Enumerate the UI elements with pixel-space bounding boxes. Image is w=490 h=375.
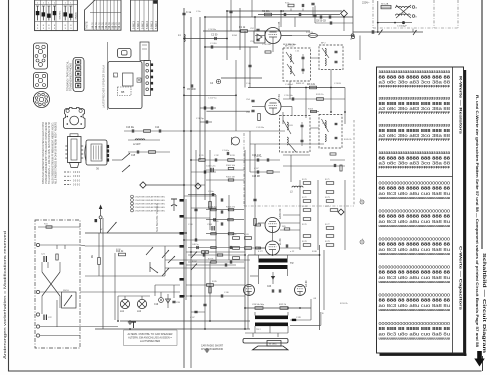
svg-text:FFFFFFFFFFFFFFFFFFFFFFFFFFFFFF: FFFFFFFFFFFFFFFFFFFFFFFFFFFFFF	[379, 111, 451, 115]
svg-text:R 77k: R 77k	[208, 259, 214, 261]
capacitor C45 y248	[192, 244, 200, 249]
wire rail y17	[205, 16, 353, 18]
resistor R38 grid stopper V3	[256, 224, 261, 226]
svg-text:1 NUR BEI UKW-BETRIEB GES.: 1 NUR BEI UKW-BETRIEB GES.	[135, 211, 166, 213]
node power junction1	[377, 22, 379, 24]
wire agc vertical b	[317, 180, 319, 250]
dash-dot boundary vertical x244	[243, 133, 245, 206]
svg-text:EZ 80: EZ 80	[305, 280, 308, 287]
table capacitor value rows group 2	[379, 209, 451, 228]
wire rail y38	[184, 38, 227, 40]
wire v-stub x250 mid	[249, 131, 251, 172]
circled legend digits with note lines	[131, 195, 166, 213]
wire lamps top	[118, 295, 150, 297]
circled node digit 6	[360, 240, 364, 244]
svg-text:R400 L2: R400 L2	[296, 83, 305, 85]
wire mains inner v3	[47, 262, 49, 268]
svg-text:BF 2: BF 2	[321, 43, 326, 45]
svg-text:333333333333333333333333333333: 333333333333333333333333333333	[379, 96, 451, 100]
resistor R10	[116, 251, 126, 256]
wire vertical x245 top	[244, 31, 246, 88]
resistor R24 y220	[228, 219, 234, 221]
svg-text:L2 ANT: L2 ANT	[133, 143, 141, 146]
svg-text:uuuuuuuuuuuuuuuuuuuuuuuuuuuuuu: uuuuuuuuuuuuuuuuuuuuuuuuuuuuuuuu	[379, 224, 451, 228]
svg-text:R 72: R 72	[302, 197, 307, 199]
svg-text:R 76: R 76	[302, 224, 307, 226]
svg-text:C 30 5p: C 30 5p	[196, 118, 204, 120]
voltage/alignment table A frame with rows and columns	[35, 0, 78, 31]
wire cluster rail y140	[128, 139, 160, 141]
svg-text:R 71: R 71	[325, 179, 330, 181]
capacitor C20 bottom	[172, 301, 180, 304]
table A cell figures and rotated captions	[37, 2, 77, 30]
note text box outline	[124, 330, 178, 346]
svg-text:88 888 88 8888 888 888 88: 88 888 88 8888 888 888 88	[379, 214, 451, 220]
short link black component	[292, 319, 296, 321]
resistor R25 y235	[211, 233, 217, 235]
resistor R26 y235b	[228, 233, 234, 235]
svg-text:58 31: 58 31	[118, 21, 121, 28]
wire v x315 top	[314, 6, 316, 23]
tube V4 envelope	[266, 241, 280, 255]
wire stub v x291	[290, 9, 292, 12]
wire stub y122	[200, 121, 212, 123]
resistor R37 vertical right of T4	[340, 165, 342, 171]
rotated figures inside table B1	[86, 21, 121, 29]
svg-text:FFFFFFFFFFFFFFFFFFFFFFFFFFFFFF: FFFFFFFFFFFFFFFFFFFFFFFFFFFFFF	[379, 165, 451, 169]
dash-dot boundary horizontal y206	[244, 205, 354, 207]
fuse SI 0.2A	[381, 2, 391, 8]
trimmer slider symbols inside table A	[36, 6, 73, 21]
wire V2 grid	[252, 106, 265, 108]
node junction bus B5 y38	[226, 38, 228, 40]
switch arm antenna input	[107, 222, 117, 233]
svg-text:C13 Ra: C13 Ra	[126, 127, 135, 129]
wire mains inner v1	[56, 245, 58, 249]
test point diamond TP4	[195, 183, 201, 189]
electrolytic C22 bold in mains box	[44, 315, 53, 321]
svg-text:C 86: C 86	[224, 292, 229, 294]
wire antenna drop long	[102, 218, 104, 329]
svg-text:C 64: C 64	[322, 123, 327, 125]
svg-text:000000000000000000000000: 000000000000000000000000	[379, 293, 451, 298]
svg-text:R 65 2k: R 65 2k	[344, 139, 352, 141]
svg-text:ALLE WIDERSTAENDE IN OHM 1/8: ALLE WIDERSTAENDE IN OHM 1/8 W WENN NICH…	[54, 122, 57, 184]
capacitor C30	[206, 120, 207, 123]
svg-text:C 1a: C 1a	[186, 11, 192, 14]
svg-text:C 89: C 89	[296, 317, 301, 319]
svg-text:Schaltbild — Circuit Diagram: Schaltbild — Circuit Diagram	[482, 253, 487, 353]
capacitor C53 beside V1 lower	[250, 39, 260, 43]
wire mains inner v2	[64, 245, 66, 249]
wire bus x236 seg	[235, 60, 237, 131]
coil L3 detector	[290, 186, 303, 193]
wire rail y172 mid	[191, 171, 216, 173]
svg-text:88 888 88 8888 888 888 88: 88 888 88 8888 888 888 88	[379, 326, 451, 332]
wire vertical x321 stub	[320, 312, 322, 325]
dial lamp LA1	[120, 299, 130, 313]
wire output grid rail	[250, 275, 258, 277]
table capacitor value rows group 1	[379, 181, 451, 200]
svg-text:1 NUR BEI UKW-BETRIEB GES.: 1 NUR BEI UKW-BETRIEB GES.	[135, 197, 166, 199]
wire rail y160 mid	[191, 159, 250, 161]
capacitor C56 y23	[330, 21, 331, 24]
wire rail y95	[184, 94, 236, 96]
wire osc vertical x345	[344, 88, 346, 125]
svg-text:R104 47k: R104 47k	[226, 206, 236, 208]
wire TR2 leads	[255, 312, 288, 333]
wire V3 anode right	[280, 222, 301, 224]
switch S1b arm	[122, 165, 130, 172]
wire top stub x231	[230, 0, 232, 31]
wire rail y262 mid	[188, 261, 244, 263]
wire vertical bus B4	[204, 17, 206, 200]
mains switch box K1	[62, 290, 77, 308]
wire agc vertical c	[344, 180, 346, 250]
wire mains bottom v	[56, 300, 58, 327]
svg-text:W 1981: W 1981	[269, 344, 277, 346]
svg-text:R102 1M: R102 1M	[226, 177, 235, 179]
wire power down stub	[412, 29, 414, 32]
capacitor group mid	[221, 198, 222, 225]
wire v-stub x331b	[330, 88, 332, 113]
oval resistor R35 on anode rail	[306, 32, 318, 38]
svg-text:000000000000000000000000: 000000000000000000000000	[379, 265, 451, 270]
junction dots low	[204, 251, 211, 330]
svg-text:C106: C106	[207, 224, 213, 226]
svg-text:uuuuuuuuuuuuuuuuuuuuuuuuuuuuuu: uuuuuuuuuuuuuuuuuuuuuuuuuuuuuuuu	[379, 308, 451, 312]
diode D1 detector block	[254, 31, 265, 43]
wire stub y312	[191, 311, 205, 313]
wire rail y144	[250, 143, 324, 145]
wire if row y172	[250, 171, 280, 173]
electrolytic C21 bold in mains box	[41, 254, 46, 263]
wire dashed dial line	[353, 120, 355, 206]
wire rail y240 left	[184, 239, 216, 241]
wire mains rail y292	[40, 291, 62, 293]
output transformer top view with terminals	[85, 140, 109, 165]
capacitor C32	[225, 263, 226, 266]
wire V3 grid	[258, 222, 266, 224]
capacitor C38 on x250	[248, 65, 251, 66]
switch arm right	[413, 30, 417, 35]
svg-text:R- und C-Werte der gedruckten: R- und C-Werte der gedruckten Platten Se…	[475, 95, 479, 347]
resistor R17 on x255	[254, 219, 257, 226]
electrolytic C35 with curved plate	[171, 199, 177, 211]
wire T1 to T2 link	[311, 57, 320, 59]
capacitor C26 power	[372, 30, 374, 34]
wire inner box left	[114, 253, 116, 320]
svg-text:R 70: R 70	[302, 179, 307, 181]
table capacitor value rows group 3	[379, 237, 451, 256]
svg-text:88 888 88 8888 888 888 88: 88 888 88 8888 888 888 88	[379, 101, 451, 107]
svg-text:Änderungen vorbehalten = Mod: Änderungen vorbehalten = Modifications r…	[3, 231, 7, 359]
electrolytic C24 50+50	[252, 304, 265, 309]
wire vertical bus B5	[226, 11, 228, 60]
svg-text:C 4a: C 4a	[246, 83, 251, 85]
wire v-stub x295	[294, 17, 296, 27]
svg-text:C 61 Ra: C 61 Ra	[256, 127, 265, 129]
wire TP2 stub	[146, 184, 184, 186]
dial lamp LA2	[137, 299, 147, 313]
svg-text:R103: R103	[308, 108, 314, 110]
resistor R3 under T2	[307, 84, 317, 89]
wire v-stub x291 det	[290, 155, 292, 182]
wire lamp LA1 stub	[124, 296, 126, 299]
wire rail y185 mid	[146, 184, 205, 186]
power transformer TR3 crossed windings	[396, 5, 412, 18]
svg-text:R 73: R 73	[325, 197, 330, 199]
svg-text:TASTE: TASTE	[86, 21, 89, 29]
wire out left rail27	[165, 259, 250, 261]
resistor R6	[144, 130, 151, 133]
coil L4 loop symbol	[232, 137, 240, 145]
capacitor C42 y195	[208, 191, 214, 196]
capacitor C2 coupling	[211, 34, 218, 41]
wire v4 grid long	[245, 247, 266, 249]
wire bottom page border	[9, 370, 482, 372]
svg-text:88 888 88 8888 888 888 88: 88 888 88 8888 888 888 88	[379, 242, 451, 248]
capacitor C58 right of T4	[334, 164, 335, 167]
svg-text:000000000000000000000000: 000000000000000000000000	[379, 209, 451, 214]
svg-text:EABC 80: EABC 80	[279, 208, 282, 219]
svg-text:5 8813: 5 8813	[133, 21, 136, 29]
wire mid vertical x210	[209, 150, 211, 230]
svg-text:SI 0.2A: SI 0.2A	[381, 2, 389, 5]
test point diamond TP1	[341, 10, 348, 17]
svg-text:LAUTSPRECHER: LAUTSPRECHER	[140, 340, 160, 343]
wire rail y131 extension	[184, 130, 250, 132]
svg-text:C 107 5u: C 107 5u	[208, 97, 217, 99]
svg-text:uuuuuuuuuuuuuuuuuuuuuuuuuuuuuu: uuuuuuuuuuuuuuuuuuuuuuuuuuuuuuuu	[379, 336, 451, 340]
svg-text:TR: TR	[290, 261, 294, 265]
terminal circle P5	[36, 334, 39, 337]
capacitor C8 pair	[320, 15, 330, 18]
electrolytic C25 power	[397, 21, 407, 27]
wire right feed	[359, 36, 361, 61]
capacitor C57 x315	[313, 15, 316, 16]
tube socket view S1 (tall rounded rect, pin circles)	[34, 43, 48, 69]
tube V5 envelope (half visible)	[244, 285, 255, 296]
wire mains exit y292	[80, 291, 180, 293]
wire mid vertical x255	[254, 144, 256, 255]
wire output mid rail	[245, 307, 311, 309]
terminal circle right rail	[351, 35, 354, 38]
svg-text:C19: C19	[154, 304, 159, 306]
capacitor C92 v	[215, 158, 216, 161]
terminal circle mains left	[351, 34, 355, 41]
capacitor C23 between tubes	[267, 286, 281, 293]
wire vertical x245 long	[244, 150, 246, 329]
chassis top extension block	[140, 42, 149, 61]
resistor R12	[279, 304, 288, 309]
wire el cluster2	[154, 285, 156, 296]
svg-text:5 8813: 5 8813	[151, 21, 154, 29]
capacitor C50 above rail	[302, 4, 303, 7]
terminal circle P2	[36, 290, 39, 293]
chassis IF-can strip right	[144, 61, 153, 96]
svg-text:BF 1 460 kHz: BF 1 460 kHz	[283, 44, 296, 46]
svg-text:LA1: LA1	[120, 310, 125, 313]
tube V1 envelope	[265, 28, 281, 44]
wire stub x333	[330, 159, 345, 161]
svg-text:ECH 81: ECH 81	[278, 94, 281, 103]
capacitor C59 between tubes	[286, 244, 287, 247]
wire el cluster	[155, 284, 180, 286]
wire mains top rail	[38, 226, 80, 228]
resistor R40 between tubes	[282, 226, 290, 230]
switch S3 arm	[162, 250, 169, 258]
wire right bus output2	[323, 250, 325, 310]
node power junction2	[394, 22, 396, 24]
wire rail y31	[203, 30, 310, 32]
wire v-stub x283c	[282, 112, 284, 124]
wire el cluster3	[173, 285, 175, 298]
wire rail y111	[206, 110, 250, 112]
svg-text:R 53 2k: R 53 2k	[340, 303, 348, 305]
svg-text:C 59 B: C 59 B	[334, 83, 341, 85]
capacitor C94	[204, 170, 205, 173]
svg-text:C118 1,5n: C118 1,5n	[206, 166, 216, 168]
mains switch block dash-dot outline	[35, 220, 80, 348]
svg-text:TONABNEHMER PHONO: TONABNEHMER PHONO	[70, 63, 73, 91]
electrolytic C4	[210, 79, 221, 85]
wire T3 to T4 link	[310, 127, 319, 129]
wire rail into TP1	[340, 10, 341, 12]
resistor R33 between cans row2	[308, 108, 317, 112]
svg-text:C8 50-C8: C8 50-C8	[316, 21, 327, 23]
svg-text:0 0 0 0: 0 0 0 0	[73, 180, 81, 182]
electrolytic C19	[154, 292, 163, 306]
wire rail y78	[221, 77, 262, 79]
dashed legend lines under transformer view	[64, 172, 81, 187]
tube socket view S2 (rounded rect, pin circles)	[34, 73, 48, 89]
tube V6 envelope rectifier	[295, 285, 306, 296]
resistor R29 y262	[208, 259, 216, 264]
svg-text:TR 2: TR 2	[256, 329, 262, 331]
table drop shadow bottom edge	[380, 354, 467, 356]
table section divider between resistors and capacitors	[377, 176, 453, 178]
wire stub y208 l	[191, 207, 216, 209]
resistor ladder AGC chain	[303, 182, 338, 247]
wire bottom audio rail	[95, 328, 250, 330]
svg-text:C-Werte — Capacitors: C-Werte — Capacitors	[459, 246, 463, 310]
svg-text:333333333333333333333333333333: 333333333333333333333333333333	[379, 123, 451, 127]
capacitor C52 beside V1 upper	[250, 28, 260, 31]
wire rail y255 mid2	[188, 254, 244, 256]
wire rail y210 mid	[206, 209, 244, 211]
transistor-like contact pair	[150, 262, 158, 273]
small connector square with inner square	[118, 49, 132, 58]
capacitor C33	[221, 294, 222, 297]
resistor R27 y248	[211, 246, 217, 248]
svg-text:333333333333333333333333333333: 333333333333333333333333333333	[379, 70, 451, 74]
svg-text:uuuuuuuuuuuuuuuuuuuuuuuuuuuuuu: uuuuuuuuuuuuuuuuuuuuuuuuuuuuuuuu	[379, 280, 451, 284]
svg-text:88 888 88 8888 888 888 88: 88 888 88 8888 888 888 88	[379, 270, 451, 276]
wave-band table B1 frame with diagonal corner and columns	[85, 0, 122, 30]
resistor R41 low	[209, 287, 211, 293]
svg-text:R 93: R 93	[230, 155, 235, 157]
wire anode rail V1	[281, 35, 352, 37]
resistor R9 vertical	[92, 254, 100, 264]
IF transformer can T2 (dashed) with windings	[319, 45, 343, 70]
svg-text:C 3 50: C 3 50	[210, 43, 217, 45]
wire mid vertical x196	[195, 150, 197, 240]
capacitor C47 y255	[203, 253, 204, 256]
svg-text:R103 30k: R103 30k	[208, 206, 218, 208]
resistor R32 beside V2	[258, 114, 261, 121]
wire v-stub x306	[305, 88, 307, 119]
capacitor C3	[211, 45, 212, 48]
wire V1 anode	[281, 35, 292, 37]
resistor R91 h	[199, 159, 206, 162]
svg-text:88 888 88 8888 888 888 88: 88 888 88 8888 888 888 88	[379, 155, 451, 161]
svg-text:5 8813: 5 8813	[137, 21, 140, 29]
capacitor C49 on x231	[229, 11, 232, 12]
note text ALTERN. DVB TO CAR SPEAKER (3 lines)	[128, 333, 173, 343]
capacitor C36 on x196	[194, 209, 197, 210]
output transformer TR1 primary bar	[259, 259, 288, 263]
wire rail y248 mid	[188, 247, 244, 249]
table capacitor value rows group 4	[379, 265, 451, 284]
wire V4 anode right	[280, 247, 301, 249]
wire power rail y22	[378, 22, 412, 24]
svg-text:5 8813: 5 8813	[146, 21, 149, 29]
plug face with centre opening	[64, 108, 86, 129]
output transformer TR1 secondary bar	[259, 265, 288, 269]
terminal circle P4	[36, 325, 39, 328]
wire V1 grid	[255, 35, 265, 37]
svg-text:5 8813: 5 8813	[142, 21, 145, 29]
wave-band table B2 frame with columns	[131, 0, 158, 31]
wire vertical x210 low	[209, 262, 211, 321]
svg-text:uuuuuuuuuuuuuuuuuuuuuuuuuuuuuu: uuuuuuuuuuuuuuuuuuuuuuuuuuuuuuuu	[379, 196, 451, 200]
switch S9 arm	[191, 264, 197, 271]
svg-text:NSCH: NSCH	[63, 290, 69, 292]
IF transformer can T4 (dashed)	[319, 115, 342, 149]
capacitor C5 with label	[187, 84, 196, 91]
wire rail y252	[186, 251, 245, 253]
arrow pointer bottom right	[474, 351, 484, 367]
wire agc vertical a	[299, 180, 301, 250]
svg-text:C5 5000: C5 5000	[187, 89, 196, 91]
wire rail y87	[248, 87, 345, 89]
table capacitor value rows group 6	[379, 321, 451, 340]
svg-text:R 91: R 91	[199, 155, 204, 157]
terminal pads column	[180, 199, 184, 298]
resistor R39 grid stopper V4	[256, 247, 261, 249]
resistor R36 right of T4	[330, 153, 336, 155]
pickup/tape DIN connector strip with 5 contact squares	[73, 58, 84, 92]
capacitor C60 low	[203, 304, 206, 305]
capacitor C29 small	[211, 106, 212, 109]
zener/diode D2	[166, 294, 171, 308]
right margin title leader line lower	[482, 356, 484, 371]
wire mains drop	[377, 1, 379, 32]
svg-text:LA2: LA2	[137, 310, 142, 313]
wire sw connect	[164, 246, 166, 276]
resistor R14	[202, 251, 209, 254]
terminal circle a	[412, 6, 417, 10]
wire mid vertical2	[228, 195, 230, 260]
svg-text:R 78: R 78	[302, 241, 307, 243]
svg-text:R1 1k: R1 1k	[239, 26, 246, 29]
svg-text:R 08 1k: R 08 1k	[306, 32, 314, 34]
tube V3 envelope	[265, 218, 280, 233]
extra arrow in can T1	[287, 64, 295, 76]
wire if row y160	[250, 159, 280, 161]
test point diamond TP3	[338, 209, 344, 215]
